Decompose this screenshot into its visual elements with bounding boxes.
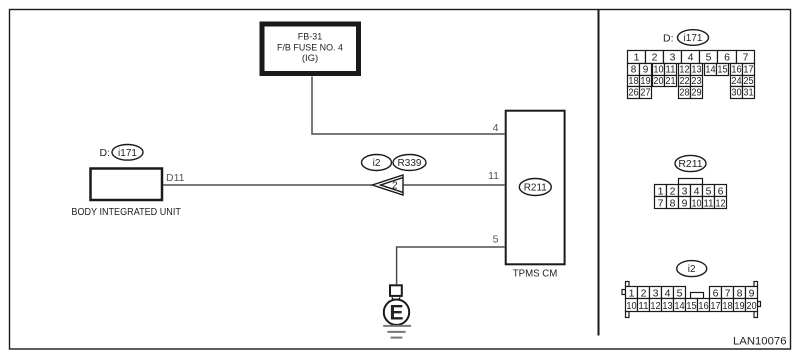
svg-text:9: 9: [682, 198, 688, 210]
svg-text:i171: i171: [118, 148, 137, 159]
svg-text:11: 11: [704, 198, 714, 210]
svg-text:20: 20: [746, 301, 757, 312]
svg-text:5: 5: [677, 287, 683, 299]
svg-text:28: 28: [679, 88, 690, 99]
connector label D: i171 (left): [100, 145, 144, 161]
svg-text:16: 16: [731, 64, 742, 75]
wire TPMS pin 5 to ground: [397, 247, 505, 284]
svg-text:7: 7: [658, 198, 664, 210]
wire fuse to TPMS pin 4: [312, 77, 505, 135]
wire connector symbol to TPMS pin 11: [404, 184, 505, 186]
svg-text:10: 10: [692, 198, 702, 210]
svg-text:19: 19: [734, 301, 745, 312]
i171 row 2: pins 8-17: [628, 64, 640, 76]
oval R339: [393, 155, 426, 171]
TPMS CM box: [506, 111, 565, 280]
i2 housing tabs: [626, 282, 630, 287]
svg-text:5: 5: [493, 233, 499, 245]
svg-text:26: 26: [628, 88, 639, 99]
i171 row 3: pins 18-25: [628, 76, 640, 87]
svg-text:3: 3: [682, 186, 688, 198]
joint connector symbol 2: [372, 175, 403, 195]
svg-text:22: 22: [679, 76, 690, 87]
svg-text:3: 3: [670, 51, 676, 63]
svg-text:i2: i2: [688, 264, 696, 275]
svg-text:17: 17: [710, 301, 721, 312]
oval R211 (in box): [519, 179, 551, 196]
svg-text:D11: D11: [166, 172, 185, 184]
svg-text:12: 12: [650, 301, 661, 312]
svg-text:15: 15: [686, 301, 697, 312]
svg-text:R211: R211: [678, 158, 702, 170]
body integrated unit box: [71, 169, 181, 219]
svg-text:6: 6: [713, 287, 719, 299]
svg-text:10: 10: [626, 301, 637, 312]
svg-text:18: 18: [722, 301, 733, 312]
svg-text:3: 3: [653, 287, 659, 299]
fuse box FB-31: [262, 24, 359, 74]
svg-text:5: 5: [706, 51, 712, 63]
panel divider line: [598, 10, 600, 336]
i171 row 4: pins 26-31: [628, 87, 640, 99]
svg-text:19: 19: [640, 76, 651, 87]
svg-text:i171: i171: [684, 33, 703, 44]
svg-text:23: 23: [691, 76, 702, 87]
ground E: [383, 285, 411, 337]
svg-text:15: 15: [717, 64, 728, 75]
svg-text:i2: i2: [373, 158, 381, 169]
svg-text:25: 25: [743, 76, 754, 87]
svg-text:8: 8: [670, 198, 676, 210]
svg-text:30: 30: [731, 88, 742, 99]
svg-text:1: 1: [629, 287, 635, 299]
i2 row 1 right: pins 6-9: [710, 287, 722, 299]
svg-text:8: 8: [737, 287, 743, 299]
svg-text:20: 20: [653, 76, 664, 87]
svg-text:10: 10: [653, 64, 664, 75]
svg-text:FB-31: FB-31: [298, 32, 322, 43]
oval i2 (middle): [362, 155, 392, 171]
svg-text:13: 13: [662, 301, 673, 312]
svg-text:5: 5: [706, 186, 712, 198]
svg-text:21: 21: [665, 76, 676, 87]
svg-text:14: 14: [674, 301, 685, 312]
R211 row 1: pins 1-6: [655, 185, 667, 197]
svg-text:13: 13: [691, 64, 702, 75]
svg-text:6: 6: [724, 51, 730, 63]
connector label R211 (right panel): [675, 155, 706, 171]
svg-text:D:: D:: [100, 147, 111, 159]
svg-text:16: 16: [698, 301, 709, 312]
svg-text:31: 31: [743, 88, 754, 99]
svg-text:11: 11: [638, 301, 649, 312]
wire BIU to connector symbol: [163, 184, 372, 186]
svg-text:F/B FUSE NO. 4: F/B FUSE NO. 4: [277, 42, 343, 53]
svg-text:2: 2: [641, 287, 647, 299]
svg-text:7: 7: [725, 287, 731, 299]
connector i2 pin table: [622, 282, 761, 318]
i2 row 1 left: pins 1-5: [626, 287, 638, 299]
svg-text:1: 1: [634, 51, 640, 63]
connector i171 pin table: [628, 51, 755, 99]
svg-text:4: 4: [694, 186, 700, 198]
svg-text:9: 9: [749, 287, 755, 299]
connector label i2 (right panel): [677, 261, 707, 277]
svg-text:LAN10076: LAN10076: [733, 336, 787, 348]
svg-text:7: 7: [743, 51, 749, 63]
svg-text:12: 12: [716, 198, 726, 210]
svg-text:R339: R339: [398, 158, 422, 169]
svg-text:2: 2: [670, 186, 676, 198]
connector R211 pin table: [655, 179, 727, 210]
svg-text:4: 4: [688, 51, 694, 63]
svg-text:24: 24: [731, 76, 742, 87]
svg-text:14: 14: [705, 64, 716, 75]
svg-text:4: 4: [665, 287, 671, 299]
svg-text:R211: R211: [524, 183, 548, 194]
svg-text:11: 11: [488, 170, 499, 182]
svg-text:E: E: [389, 302, 403, 325]
svg-text:17: 17: [743, 64, 754, 75]
svg-text:6: 6: [718, 186, 724, 198]
svg-text:BODY INTEGRATED UNIT: BODY INTEGRATED UNIT: [71, 206, 181, 218]
R211 connector latch tab: [679, 179, 703, 185]
svg-text:2: 2: [392, 181, 398, 192]
svg-text:D:: D:: [663, 32, 674, 44]
i2 row 2: pins 10-20: [626, 299, 638, 312]
svg-text:1: 1: [658, 186, 664, 198]
i171 row 1: pins 1-7: [628, 51, 646, 64]
svg-text:11: 11: [665, 64, 676, 75]
svg-text:9: 9: [643, 64, 649, 75]
R211 row 2: pins 7-12: [655, 197, 667, 209]
svg-text:12: 12: [679, 64, 690, 75]
svg-text:(IG): (IG): [302, 53, 318, 64]
svg-text:29: 29: [691, 88, 702, 99]
i2 center latch notch: [691, 293, 704, 299]
connector label D: i171 (right panel): [663, 30, 709, 46]
svg-text:18: 18: [628, 76, 639, 87]
svg-text:TPMS CM: TPMS CM: [513, 269, 558, 280]
svg-text:4: 4: [493, 122, 499, 134]
svg-text:8: 8: [631, 64, 637, 75]
svg-text:2: 2: [652, 51, 658, 63]
svg-text:27: 27: [640, 88, 651, 99]
